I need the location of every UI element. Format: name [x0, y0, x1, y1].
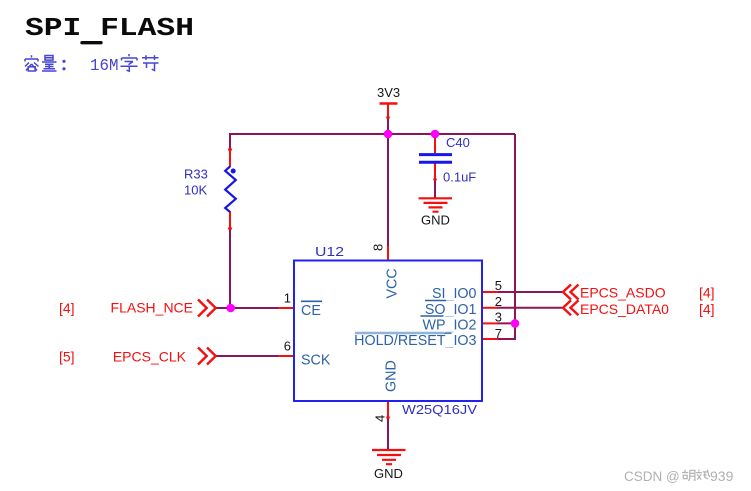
svg-text:CE: CE: [301, 303, 321, 319]
wire: pin4 to GND: [387, 418, 389, 450]
wire: 3V3 top bus horizontal: [230, 133, 515, 135]
pin 5 stub: [482, 291, 498, 293]
svg-text:EPCS_DATA0: EPCS_DATA0: [580, 301, 669, 317]
glyph 胡: [682, 470, 695, 481]
svg-text:SI_IO0: SI_IO0: [432, 286, 477, 302]
ground symbol under C40: [419, 198, 453, 211]
pin stub C40 top: [434, 136, 436, 153]
pin 6 stub: [278, 355, 294, 357]
wire: 3V3 stem to pin8: [387, 118, 389, 247]
svg-text:16M: 16M: [90, 57, 119, 76]
svg-text:6: 6: [284, 339, 291, 354]
svg-text:3: 3: [495, 309, 502, 324]
junction at FLASH_NCE: [226, 304, 235, 313]
svg-text:10K: 10K: [184, 183, 207, 198]
power bar 3V3: [380, 102, 398, 105]
title underscore bar: [82, 41, 101, 44]
svg-text:EPCS_CLK: EPCS_CLK: [113, 349, 187, 365]
svg-text:EPCS_ASDO: EPCS_ASDO: [580, 285, 666, 301]
wire: pin2 to EPCS_DATA0: [497, 307, 562, 309]
pin stub C40 bottom: [433, 163, 437, 181]
wire: C40 tap upper: [434, 134, 436, 137]
svg-text:[5]: [5]: [59, 349, 75, 365]
svg-text:GND: GND: [374, 466, 403, 481]
watermark CSDN @胡斌939: [624, 468, 734, 484]
svg-text:C40: C40: [446, 135, 470, 150]
svg-text:W25Q16JV: W25Q16JV: [402, 402, 477, 417]
pin 3 stub: [482, 322, 498, 324]
IC U12 body (W25Q16JV): [294, 261, 482, 402]
svg-text:[4]: [4]: [59, 300, 75, 316]
resistor R33: [225, 167, 236, 213]
svg-text:HOLD/RESET_IO3: HOLD/RESET_IO3: [354, 333, 476, 349]
junction at C40 tap: [431, 130, 440, 139]
glyph 斌: [696, 470, 710, 480]
pin stub R33 bottom lead: [228, 211, 232, 230]
glyph 量: [42, 56, 57, 72]
subtitle 容量：16M字节 (capacity 16M bytes) drawn as strokes: [25, 55, 66, 71]
svg-text:SCK: SCK: [301, 353, 331, 369]
wire: right vertical pullup from bus to pin7: [497, 134, 515, 339]
glyph 容: [25, 55, 39, 71]
wire: FLASH_NCE to pin1: [215, 307, 279, 309]
svg-text:[4]: [4]: [699, 285, 715, 301]
svg-text:[4]: [4]: [699, 301, 715, 317]
svg-text:7: 7: [495, 326, 502, 341]
svg-text:5: 5: [495, 278, 502, 293]
fullwidth colon ：: [62, 60, 65, 71]
svg-text:8: 8: [371, 244, 386, 251]
svg-text:CSDN @: CSDN @: [624, 469, 680, 484]
svg-text:U12: U12: [315, 244, 344, 259]
pin 4 stub: [386, 401, 390, 419]
junction at 3V3 bus: [384, 130, 393, 139]
svg-text:GND: GND: [384, 360, 400, 392]
svg-text:SPI FLASH: SPI FLASH: [25, 14, 194, 43]
wire: EPCS_CLK to pin6: [215, 355, 279, 357]
pin stub R33 top lead: [228, 148, 232, 167]
glyph 字: [121, 54, 138, 71]
wire: left vertical from bus to R33 top: [229, 133, 231, 149]
svg-text:GND: GND: [421, 213, 450, 228]
svg-text:939: 939: [710, 468, 734, 484]
svg-text:VCC: VCC: [385, 268, 401, 298]
wire: pin5 to EPCS_ASDO: [497, 291, 562, 293]
wire: C40 bottom to GND: [434, 180, 436, 198]
pin 7 stub: [482, 338, 498, 340]
svg-text:0.1uF: 0.1uF: [443, 170, 476, 185]
pin stub 3V3 symbol leg: [386, 104, 390, 119]
svg-text:FLASH_NCE: FLASH_NCE: [111, 300, 193, 316]
svg-text:WP_IO2: WP_IO2: [422, 317, 476, 333]
glyph 节: [142, 55, 159, 70]
pin 8 stub: [387, 246, 389, 261]
wire: pin3 to pullup junction: [497, 322, 515, 324]
svg-text:R33: R33: [184, 167, 208, 182]
port chevron EPCS_ASDO: [563, 285, 579, 300]
port chevron FLASH_NCE: [198, 300, 216, 317]
wire: R33 bottom to FLASH_NCE junction: [229, 229, 231, 309]
port chevron EPCS_CLK: [198, 348, 216, 365]
pin 1 stub: [278, 307, 294, 309]
capacitor C40: [419, 155, 452, 163]
junction at pin3 pullup: [511, 319, 520, 328]
port chevron EPCS_DATA0: [563, 300, 579, 315]
svg-text:2: 2: [495, 294, 502, 309]
ground symbol under pin4: [372, 450, 406, 464]
pin 2 stub: [482, 307, 498, 309]
svg-text:4: 4: [373, 415, 388, 422]
svg-text:1: 1: [284, 291, 291, 306]
svg-text:3V3: 3V3: [377, 85, 400, 100]
